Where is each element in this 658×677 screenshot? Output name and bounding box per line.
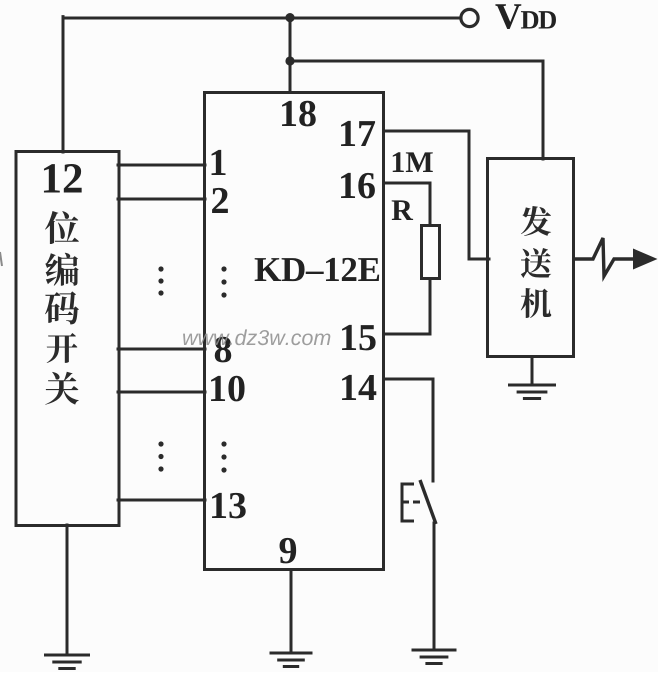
ellipsis dots (IC pins lower) xyxy=(221,441,226,472)
switch SB blade xyxy=(420,480,436,524)
wire encoder to pin 2 xyxy=(118,198,205,201)
pin label 14 xyxy=(342,375,376,400)
encoder switch box S1 (12位编码开关) xyxy=(16,152,119,526)
wire pin 18 to VDD rail xyxy=(289,17,292,92)
label 位 xyxy=(45,211,79,244)
label 发 xyxy=(521,206,551,236)
pin label 17 xyxy=(341,121,375,146)
wire switch to ground xyxy=(433,523,436,650)
pin label 15 xyxy=(342,325,376,350)
ellipsis dots (encoder pins lower) xyxy=(158,441,163,471)
ground (switch) xyxy=(412,650,457,664)
wire encoder switch top to VDD rail xyxy=(62,17,65,152)
IC U1 KD-12E box xyxy=(205,93,384,570)
scan artifact tick left edge xyxy=(0,252,2,266)
wire encoder to pin 8 xyxy=(118,348,205,351)
wire transmitter bottom to ground xyxy=(531,357,534,384)
wire pin 9 to ground xyxy=(290,570,293,652)
label 1M xyxy=(393,152,433,172)
wire pin 17 to transmitter xyxy=(384,131,490,259)
wire encoder bottom to ground xyxy=(66,525,69,654)
pin label 2 xyxy=(212,188,228,213)
pin label 10 xyxy=(211,376,245,402)
wire transmitter output to antenna arrow xyxy=(574,238,634,276)
watermark www.dz3w.com xyxy=(183,329,330,345)
antenna output arrowhead xyxy=(633,249,658,270)
label 开 xyxy=(47,333,78,363)
wire resistor R bottom to pin 15 xyxy=(384,279,431,334)
label VDD (V) xyxy=(495,4,521,29)
pin label 9 xyxy=(280,538,297,564)
label 12 xyxy=(44,164,82,192)
pin label 18 xyxy=(282,101,316,127)
pin label 8 xyxy=(215,337,231,363)
ellipsis dots (encoder pins upper) xyxy=(158,266,163,295)
ground (encoder switch) xyxy=(44,655,90,669)
pin label 1 xyxy=(212,150,226,175)
wire encoder to pin 13 xyxy=(118,499,205,502)
label 关 xyxy=(45,372,78,405)
junction dot A (VDD rail / pin 18) xyxy=(285,13,294,22)
junction dot B (rail / transmitter branch) xyxy=(285,56,294,65)
label R xyxy=(392,200,413,220)
terminal VDD circle xyxy=(461,9,478,26)
wire VDD rail to transmitter top xyxy=(290,61,543,159)
label 送 xyxy=(521,248,551,278)
wire pin 14 to switch xyxy=(384,379,434,481)
ground (pin 9) xyxy=(270,653,313,667)
resistor R body xyxy=(422,226,440,279)
ellipsis dots (IC pins upper) xyxy=(221,266,226,297)
transmitter box (发送机) xyxy=(488,159,574,357)
label KD-12E xyxy=(255,258,379,281)
label 码 xyxy=(45,291,79,324)
label VDD (DD) xyxy=(521,11,556,28)
switch SB actuator bracket xyxy=(402,484,420,521)
wire VDD top rail xyxy=(63,17,460,20)
wire pin 16 to resistor R top xyxy=(384,183,431,226)
wire encoder to pin 1 xyxy=(118,164,205,167)
pin label 13 xyxy=(212,493,246,519)
label 编 xyxy=(45,253,78,286)
pin label 16 xyxy=(341,173,375,199)
label 机 xyxy=(521,288,551,318)
wire encoder to pin 10 xyxy=(118,391,205,394)
ground (transmitter) xyxy=(508,385,556,399)
